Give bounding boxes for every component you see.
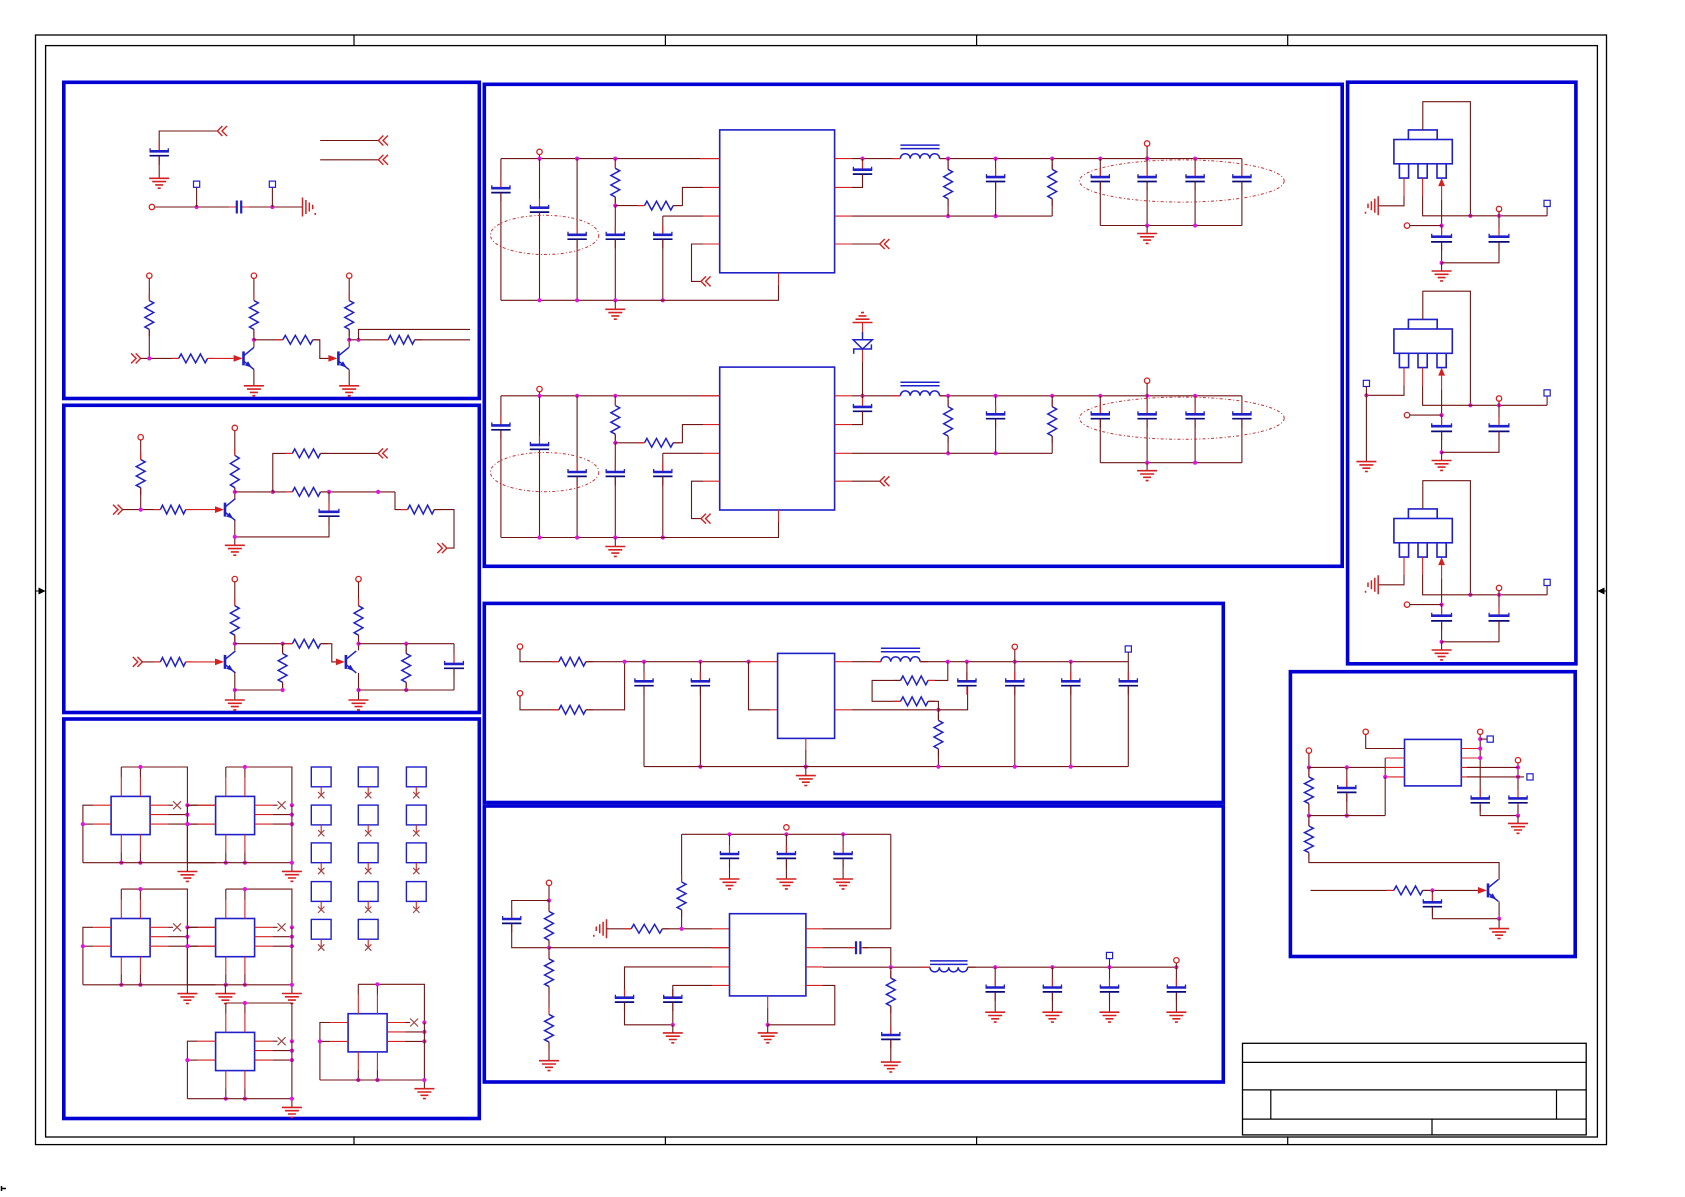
wire R1 to node: [148, 329, 150, 358]
IC8 pin2 stub: [1385, 757, 1404, 759]
wire port to resistor: [253, 279, 255, 301]
capacitor C6-6: [890, 1026, 892, 1048]
page corner mark: [2, 1186, 7, 1191]
junction: [1145, 223, 1149, 227]
port P2-4: [356, 576, 361, 581]
wire Cboot to pin2R: [852, 411, 863, 424]
wire C8-4 to emitter: [1432, 907, 1499, 919]
wire bottom rail: [320, 1079, 425, 1081]
wire left loop: [83, 927, 93, 985]
wire port to R13: [234, 582, 236, 606]
wire port stub: [539, 392, 541, 396]
U5 pin right1: [255, 1040, 273, 1042]
output port: [1144, 378, 1149, 383]
wire output lower: [415, 339, 470, 341]
resistor R6-0: [677, 882, 686, 910]
wire Q3 emitter down: [234, 521, 236, 546]
stub: [367, 825, 369, 833]
wire: [548, 901, 550, 912]
junction: [1307, 765, 1311, 769]
wire C5-1 down: [643, 686, 645, 767]
U4 pin right1: [255, 926, 273, 928]
sheet entry arrow E9: [133, 657, 143, 667]
port P2-2: [232, 425, 237, 430]
wire top rail: [121, 889, 187, 927]
junction: [804, 765, 808, 769]
reg pin1 stub: [1403, 178, 1405, 196]
junction: [860, 157, 864, 161]
wire left loop: [187, 805, 197, 863]
title block row line 3: [1243, 1118, 1587, 1120]
wire output: [823, 966, 930, 968]
no-connect X: [413, 792, 419, 798]
stub: [367, 787, 369, 795]
wire collector to R4: [254, 339, 283, 341]
IC gnd pin stub: [778, 273, 780, 285]
wire to C5-2: [699, 662, 701, 682]
U6 pin right2: [387, 1031, 405, 1033]
no-connect X: [365, 830, 371, 836]
capacitor Creg2: [1498, 228, 1500, 251]
wire pin4R to terminal: [1467, 776, 1524, 778]
junction: [1497, 214, 1501, 218]
wire: [187, 823, 197, 825]
wire to C1: [1441, 415, 1443, 424]
junction: [233, 642, 237, 646]
wire R12 to entry: [434, 510, 454, 548]
junction: [994, 157, 998, 161]
junction: [185, 944, 189, 948]
wire to ground: [1517, 816, 1519, 824]
port P8-2: [1306, 748, 1311, 753]
junction: [860, 394, 864, 398]
wire: [225, 767, 227, 777]
wire top rail: [121, 767, 187, 805]
inductor L: [900, 391, 939, 396]
wire: [614, 197, 616, 206]
wire output gnd rail: [1100, 462, 1242, 464]
junction: [547, 946, 551, 950]
wire C6-6 down: [890, 1040, 892, 1063]
wire output rail: [940, 158, 1242, 160]
U3 no-connect X: [173, 923, 181, 931]
wire port stub: [1175, 963, 1177, 967]
wire to Cout: [1241, 396, 1243, 414]
Q4 base arrow: [215, 659, 224, 666]
wire output rail: [1423, 575, 1548, 595]
U6 pin bot2: [376, 1052, 378, 1070]
junction: [1050, 965, 1054, 969]
wire tab loop: [1423, 481, 1471, 595]
IC pin3R stub: [835, 215, 852, 217]
wire R8-3 to base: [1423, 889, 1478, 891]
junction: [185, 813, 189, 817]
input port: [537, 149, 542, 154]
wire to ground: [1146, 463, 1148, 471]
wire: [244, 975, 246, 985]
no-connect X: [365, 868, 371, 874]
wire Cboot to pin2R: [852, 174, 863, 187]
wire pin4 to entry: [692, 244, 704, 281]
U6 pin top2: [376, 995, 378, 1014]
U5 pin top2: [244, 1013, 246, 1032]
wire C2 down: [1442, 431, 1499, 452]
wire Q1 emitter to ground: [253, 369, 255, 385]
Q2 base arrow: [328, 355, 337, 362]
junction: [290, 925, 294, 929]
wire C6-3 down: [625, 1002, 673, 1025]
wire right bus: [291, 805, 293, 863]
wire port to resistor: [348, 279, 350, 301]
wire: [1051, 199, 1053, 216]
wire port stub: [1146, 384, 1148, 396]
wire: [273, 926, 278, 928]
regulator package outline: [1408, 509, 1437, 519]
junction: [1050, 157, 1054, 161]
junction: [946, 394, 950, 398]
terminal T8-1: [1487, 736, 1493, 742]
chassis earth reg: [1366, 196, 1379, 215]
IC gnd pin stub: [778, 510, 780, 522]
IC8 pin4R stub: [1461, 776, 1480, 778]
wire to Cout: [1146, 396, 1148, 414]
junction: [1050, 394, 1054, 398]
wire: [273, 936, 292, 938]
wire C6-out down: [994, 993, 996, 1012]
frame tick (top): [353, 35, 355, 46]
connector square col1 row2: [311, 805, 331, 825]
capacitor Creg1: [1441, 228, 1443, 251]
frame tick (top): [976, 35, 978, 46]
section box 2 (mid-left): [64, 405, 480, 712]
junction: [185, 935, 189, 939]
junction: [575, 394, 579, 398]
capacitor C5: [662, 226, 664, 248]
U6 pin right1: [387, 1022, 405, 1024]
U4 pin right3: [255, 945, 273, 947]
wire R13 to collector: [234, 635, 236, 650]
highlight ellipse input: [490, 453, 598, 492]
port reg out: [1496, 396, 1501, 401]
capacitor C5-out: [1127, 672, 1129, 694]
port P5-2: [517, 691, 522, 696]
IC pin2 stub: [703, 424, 720, 426]
wire to C4: [614, 443, 616, 472]
no-connect X: [413, 830, 419, 836]
wire port to C2: [1498, 402, 1500, 425]
wire node A to R11: [273, 491, 293, 493]
title block divider right: [1556, 1090, 1558, 1119]
wire top rail: [358, 984, 424, 1022]
junction: [623, 660, 627, 664]
U4 ground: [282, 994, 302, 1004]
sheet entry arrow E6: [113, 505, 123, 515]
wire left loop: [187, 1041, 197, 1099]
wire R9 to collector: [234, 488, 236, 499]
IC U6: [348, 1014, 387, 1052]
ground C6-out: [1100, 1012, 1120, 1022]
inductor L6: [930, 967, 968, 972]
capacitor C6-out: [994, 979, 996, 1001]
wire C1 down: [1441, 242, 1443, 263]
junction: [1440, 603, 1444, 607]
wire to pin2: [749, 662, 771, 710]
junction: [680, 927, 684, 931]
wire top rail: [682, 833, 891, 835]
wire C6-5 to node: [863, 948, 891, 968]
ground C6-6: [881, 1062, 901, 1072]
ground U3/U4 bus: [177, 994, 197, 1004]
capacitor Cout: [1099, 405, 1101, 427]
resistor Rf1: [944, 169, 953, 198]
U5 pin right2: [255, 1050, 273, 1052]
port P at 349: [347, 273, 352, 278]
IC U2: [216, 796, 255, 834]
wire C6-4 to pin4: [673, 985, 712, 997]
IC pin4 stub: [703, 480, 720, 482]
wire to C-in1: [500, 159, 502, 188]
ground C6-top: [720, 879, 740, 889]
U2 pin right3: [255, 823, 273, 825]
wire to Cout: [1194, 396, 1196, 414]
wire terminal stub: [1109, 959, 1111, 968]
capacitor Cout: [1099, 168, 1101, 190]
junction: [936, 765, 940, 769]
wire C8-1 down: [1346, 794, 1348, 816]
no-connect X: [318, 830, 324, 836]
transistor Q3: [224, 503, 227, 517]
wire rail to R6-0: [681, 834, 683, 882]
resistor R6-2: [545, 959, 554, 987]
junction: [290, 983, 294, 987]
capacitor C5-1: [643, 672, 645, 694]
wire R5 to collector node: [348, 329, 350, 339]
wire bottom rail: [501, 522, 779, 538]
junction: [185, 1058, 189, 1062]
IC U8: [1405, 739, 1462, 786]
junction: [356, 338, 360, 342]
wire to Ctop: [785, 834, 787, 854]
junction: [356, 1078, 360, 1082]
terminal reg out: [1544, 579, 1550, 585]
reg pin2 stub: [1422, 557, 1424, 575]
junction: [1107, 965, 1111, 969]
junction: [290, 935, 294, 939]
wire: [376, 1070, 378, 1080]
transistor Q1: [242, 351, 245, 365]
wire to inductor: [852, 661, 881, 663]
wire C6-out down: [1051, 993, 1053, 1012]
resistor R4: [283, 335, 313, 344]
wire: [548, 940, 550, 947]
wire to entry E2: [320, 140, 378, 142]
capacitor Cout: [1241, 405, 1243, 427]
wire to ground: [1498, 919, 1500, 929]
capacitor Creg1: [1441, 607, 1443, 630]
wire output rail: [940, 395, 1242, 397]
junction: [233, 490, 237, 494]
wire: [357, 984, 359, 994]
resistor R6-5: [886, 978, 895, 1006]
junction: [965, 660, 969, 664]
ground C8-3: [1508, 823, 1528, 833]
ground G3: [339, 386, 359, 396]
wire: [225, 1088, 227, 1098]
wire C6-out down: [1109, 993, 1111, 1012]
port P6-3: [1174, 958, 1179, 963]
wire C2 to earth: [241, 206, 302, 208]
wire R2 to Q1 base: [208, 357, 234, 359]
terminal T6: [1106, 952, 1112, 958]
wire port stub: [539, 155, 541, 159]
wire: [890, 967, 892, 978]
U4 pin bot1: [225, 957, 227, 975]
junction: [1516, 775, 1520, 779]
capacitor Creg2: [1498, 607, 1500, 630]
section box 4 (converters): [484, 84, 1342, 566]
ground U1/U2 bus: [177, 872, 197, 882]
wire: [244, 889, 246, 899]
wire input rail: [501, 158, 720, 160]
wire base line: [1311, 889, 1394, 891]
IC pin1R stub: [835, 395, 852, 397]
U2 pin left2: [198, 823, 216, 825]
wire R10 to entry: [321, 452, 379, 454]
chassis earth E4: [303, 198, 316, 217]
no-connect X: [365, 792, 371, 798]
wire gnd: [767, 1008, 769, 1025]
no-connect X: [365, 907, 371, 913]
ground R6-3: [539, 1061, 559, 1071]
wire R7 to node: [140, 488, 142, 510]
connector square col3 row2: [406, 805, 426, 825]
wire gnd down: [805, 750, 807, 767]
no-connect X: [318, 792, 324, 798]
resistor R17: [354, 606, 363, 636]
wire to C6-5: [823, 947, 853, 949]
resistor R9: [230, 455, 239, 487]
ground G1: [149, 178, 169, 188]
U6 pin bot1: [357, 1052, 359, 1070]
wire right bus1: [1479, 735, 1481, 797]
junction: [138, 861, 142, 865]
wire: [1051, 159, 1053, 170]
port reg adj: [1404, 223, 1409, 228]
wire: [937, 710, 939, 721]
terminal reg out: [1544, 390, 1550, 396]
wire C5-2 down: [699, 686, 701, 767]
junction: [936, 708, 940, 712]
wire emitter down: [1498, 901, 1500, 918]
wire to ground: [1146, 226, 1148, 234]
U3 pin top2: [139, 900, 141, 919]
wire pin bus: [1384, 758, 1386, 777]
junction: [1468, 214, 1472, 218]
capacitor Cin2: [539, 436, 541, 458]
capacitor Cin1: [500, 179, 502, 201]
sheet entry arrow out: [880, 476, 890, 486]
junction: [698, 660, 702, 664]
U1 pin left1: [93, 804, 111, 806]
capacitor C8-4: [1431, 893, 1433, 915]
wire tab loop: [1423, 291, 1471, 405]
sheet entry arrow E5: [131, 353, 141, 363]
wire: [168, 926, 173, 928]
regulator package outline: [1408, 319, 1437, 329]
capacitor C6-out: [1175, 979, 1177, 1001]
reg pin3 arrow: [1438, 557, 1445, 565]
IC pin3 stub: [703, 452, 720, 454]
wire Rh to pin2: [673, 187, 703, 205]
IC pin2R stub: [835, 424, 852, 426]
junction: [1345, 765, 1349, 769]
port P8-3: [1478, 729, 1483, 734]
junction: [537, 298, 541, 302]
no-connect X: [413, 907, 419, 913]
junction: [1098, 157, 1102, 161]
section box 1 (top-left): [64, 82, 480, 398]
junction: [195, 205, 199, 209]
wire entry to R8: [123, 509, 161, 511]
regulator package outline: [1408, 130, 1437, 140]
wire to pin3: [663, 215, 703, 217]
no-connect X: [318, 868, 324, 874]
wire pin1 to earth: [1378, 196, 1404, 206]
junction: [290, 861, 294, 865]
ground C6-top: [776, 879, 796, 889]
junction: [138, 887, 142, 891]
junction: [233, 688, 237, 692]
U4 pin right2: [255, 936, 273, 938]
IC pin1R stub: [835, 158, 852, 160]
wire: [947, 199, 949, 216]
junction: [575, 535, 579, 539]
wire top rail: [226, 767, 292, 805]
junction: [613, 441, 617, 445]
IC pin2R stub: [835, 186, 852, 188]
IC converter: [720, 130, 835, 273]
junction: [1478, 737, 1482, 741]
junction: [946, 157, 950, 161]
wire fb top: [928, 662, 948, 681]
wire to C-in1: [500, 396, 502, 425]
wire to terminal: [1480, 738, 1487, 740]
IC5 pin2R stub: [835, 709, 852, 711]
wire: [273, 804, 278, 806]
IC8 pin2R stub: [1461, 757, 1480, 759]
wire output rail: [968, 966, 1177, 968]
capacitor Cout: [1146, 168, 1148, 190]
wire C4 down: [453, 668, 455, 690]
highlight ellipse output: [1079, 397, 1284, 439]
junction: [243, 861, 247, 865]
wire: [244, 852, 246, 862]
capacitor Cin2: [539, 199, 541, 221]
wire to C4: [614, 206, 616, 235]
port P8-4: [1515, 758, 1520, 763]
wire terminal stub: [1127, 652, 1129, 662]
junction: [422, 1078, 426, 1082]
wire bottom rail: [501, 285, 779, 301]
wire R6-4 to IC: [662, 928, 712, 930]
connector square col3 row4: [406, 882, 426, 902]
wire node B to R15: [282, 644, 284, 654]
U3 pin top1: [120, 900, 122, 919]
junction: [1013, 660, 1017, 664]
wire: [139, 767, 141, 777]
junction: [613, 298, 617, 302]
wire bottom loop: [1309, 815, 1385, 817]
